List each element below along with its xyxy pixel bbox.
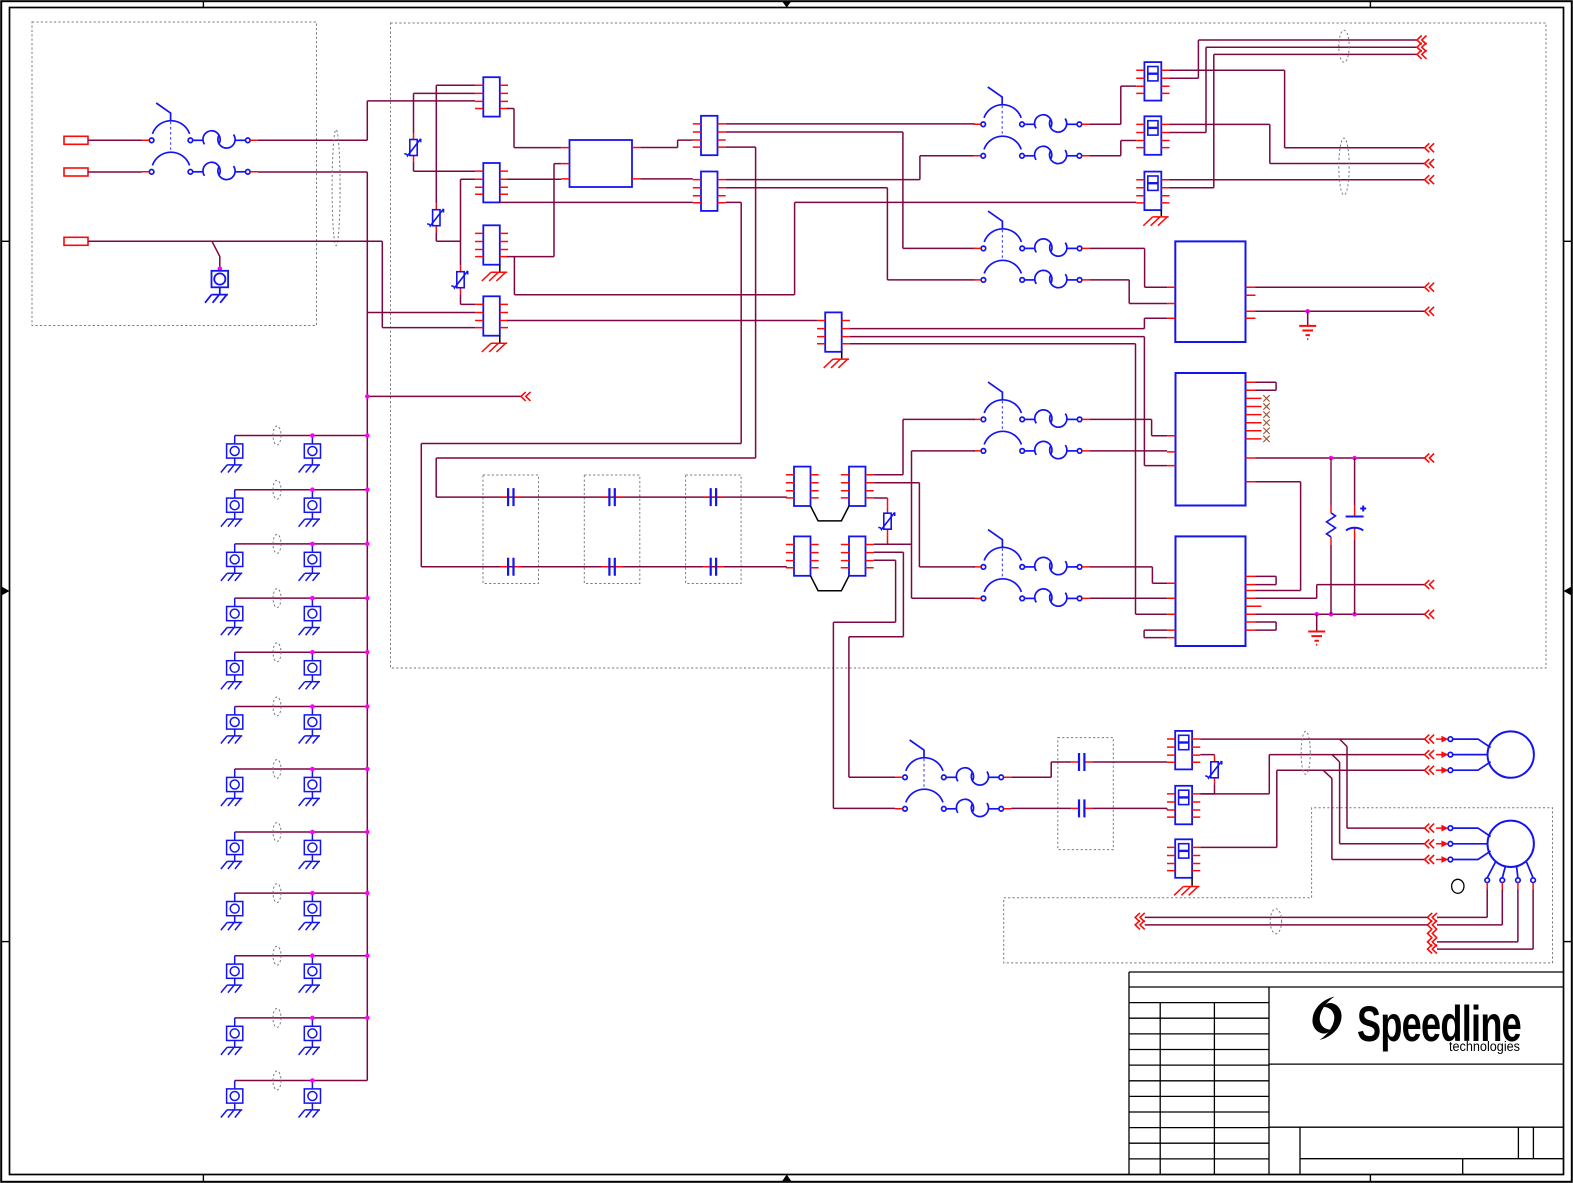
arrow motor1 terminal [1436,751,1449,758]
cap row 1 wire [436,496,787,498]
fuse F1 [1136,62,1169,101]
border tick left a [2,240,10,242]
wire pair lower pin1 to tie [874,543,912,545]
junction dots 24V rail [1329,456,1334,461]
wire Q4 pole1 out to PSU2 pin1 [1090,419,1168,435]
wire Q3 pole2 out to PSU1 pin2 [1090,280,1168,304]
shield ground row 10 right symbol [299,956,321,993]
bracket PSU3 left pins 4-5 [1144,630,1167,638]
border tick left b [2,941,10,943]
fuse F3 [1136,172,1169,211]
ground stub F6 [1191,878,1193,886]
capacitor module 1 top [500,488,521,506]
red earth PSU1 [1299,326,1316,339]
shield ground row 6 wire [235,706,368,708]
junction dot row 4 a [310,596,315,601]
breaker Q3 [973,211,1089,288]
dashed box: motor cable enclosure (L-shape) [1004,808,1553,963]
connector X3 (C2) [475,163,508,202]
buffer resistor R1 [1330,458,1332,505]
wire Q3 pole1 out to PSU1 pin1 [1090,248,1168,287]
shield ground row 1 left symbol [221,436,243,473]
shield ground row 2 cable ellipse [273,480,281,499]
bracket PSU3 right pins 1-2 [1256,576,1277,584]
junction dot row 1 b [365,433,370,438]
wire C2 bottom row to module box B [500,201,693,203]
chevron stack encoder left [1135,913,1145,922]
arrow motor2 terminal [1436,840,1449,847]
junction dot row 8 b [365,830,370,835]
wire Q2 pole2 out to F2 pin3 [1089,141,1136,156]
chevron 0V [1425,610,1435,619]
wire encoder lead 4 [1437,890,1533,950]
shield ground row 8 cable ellipse [273,823,281,842]
border tick top a [202,2,204,8]
shield ground row 9 cable ellipse [273,884,281,903]
junction dot row 6 b [365,704,370,709]
ground stub C3 [499,265,501,272]
arrow motor1 terminal [1436,767,1449,774]
connector X5 (C4) [475,296,508,335]
junction dot row 10 b [365,953,370,958]
terminal X1:2 [64,168,88,176]
chevron connector spare [521,392,531,401]
fuse F4 [1167,731,1200,770]
shield ground row 2 wire [235,489,368,491]
wire C2 pin2 out to filter in3 [507,178,561,180]
wire F3 pin2 up to top chevron 3 [1170,54,1418,187]
dashed box: bottom cap module [1058,738,1114,850]
pair lower right connector [841,536,874,575]
PE ground assembly (machine bed) [205,271,228,303]
wire T2 to breaker Q1 [88,171,142,173]
border tick top b [1369,2,1371,8]
junction dot row 11 b [365,1016,370,1021]
cable shield ellipse right mid [1339,138,1349,195]
capacitor module 3 top [703,488,724,506]
shield ground row 1 cable ellipse [273,426,281,445]
wire F2 pin1 to right chevron row2 [1170,124,1425,163]
arrow motor2 terminal [1436,856,1449,863]
centering mark right [1564,587,1572,596]
wire F4 pin3 to varistor [1200,754,1214,757]
wire varistor to F5 pin1 row [1200,784,1214,794]
centering mark bottom [782,1175,791,1182]
connector X4 (C3) [475,225,508,264]
chevron motor2 W [1425,855,1435,864]
shield ground row 10 left symbol [221,956,243,993]
wire PE to C4 pin4 [382,241,475,327]
shield ground row 9 left symbol [221,893,243,930]
wire A pin4 down to cap feed [436,147,755,497]
wire PSU1 out3 to chevron [1256,310,1425,312]
wire varistor F12 to C4 pin1 [461,294,476,304]
wire F1 pin1 to right chevron row1 [1170,70,1425,148]
connector X2 (C1) [475,77,508,116]
bracket PSU3 right pins 7-8 [1256,622,1277,630]
wire A pin1 to breaker Q2 pole1 [726,123,975,125]
fuse F6 [1167,839,1200,878]
pair upper shield link [811,506,850,521]
wire Q4 pole2 out to PSU2 pin2 [1090,450,1168,452]
cable shield ellipse top right [1339,30,1349,62]
EMC filter unit Z1 [570,140,633,187]
pair upper right connector [841,467,874,506]
wire PSU3 pin3 out to chevron via corner [1256,585,1425,599]
shield ground row 12 wire [235,1080,368,1082]
shield ground row 9 wire [235,892,368,894]
junction dot PSU1 earth [1305,309,1310,314]
junction dot row 2 b [365,487,370,492]
cable shield ellipse encoder [1270,909,1281,934]
arrow motor2 terminal [1436,825,1449,832]
shield ground row 8 left symbol [221,832,243,869]
shield ground row 11 left symbol [221,1018,243,1055]
junction dot row 10 a [310,953,315,958]
junction dot row 8 a [310,830,315,835]
arrow motor1 terminal [1436,736,1449,743]
power supply unit PSU2 [1176,373,1246,506]
wire Q5 pole2 out to PSU3 pin2 [1090,597,1168,599]
dashed box: incoming mains enclosure [32,22,317,326]
shield ground row 3 wire [235,543,368,545]
dashed box: filter cap module 3 [686,475,742,584]
varistor F10 [404,133,420,162]
border tick right [1564,941,1573,943]
junction dot row 5 b [365,650,370,655]
connector X7 (module B) [693,172,726,211]
wire F1 pin2 up to top chevron 1 [1170,40,1418,78]
shield ground row 6 cable ellipse [273,697,281,716]
shield ground row 4 right symbol [299,598,321,635]
wire phase W to motors [1200,770,1424,859]
motor M2 [1448,821,1535,883]
wire Q6 pole1 in [849,776,895,778]
svg-text:technologies: technologies [1449,1039,1520,1054]
shield ground row 11 right symbol [299,1018,321,1055]
terminal X1:3 PE [64,237,88,245]
varistor F14 [1205,755,1221,784]
chevron right row3 [1425,175,1435,184]
cable shield ellipse E1 [332,130,340,246]
wire C7 pin4 to PSU3 pin3 [850,344,1167,615]
nc cross marks PSU2 [1263,395,1269,442]
chevron 24V [1425,454,1435,463]
bottom capacitor 2 [1071,799,1092,817]
shield ground row 7 left symbol [221,769,243,806]
wire Q6 pole2 out to cap [1011,807,1071,809]
earth drop PSU1 [1307,311,1309,326]
wire filter out2 to module B pin1 [640,178,693,180]
junction dot row 6 a [310,704,315,709]
shield ground row 5 cable ellipse [273,643,281,662]
shield ground row 2 right symbol [299,490,321,527]
wire phase V to motors [1200,755,1424,844]
junction dot row 12 a [310,1078,315,1083]
fuse F2 [1136,116,1169,155]
junction dot PE drop [218,267,223,272]
wire shield bus spare to chevron [367,395,521,397]
shield ground row 5 left symbol [221,652,243,689]
junction dot row 9 b [365,891,370,896]
wire encoder lead 1 [1437,890,1487,918]
pair lower shield link [811,576,850,591]
chevron PSU1 out3 [1425,307,1435,316]
wire C1 pin2 to varistor F10 top [414,93,476,133]
shield ground row 4 left symbol [221,598,243,635]
capacitor module 2 top [602,488,623,506]
wire B pin2 down to breaker Q3 pole2 [726,188,975,280]
label ellipse [1452,879,1464,893]
centering mark left [2,587,10,596]
power supply unit PSU3 [1176,536,1246,646]
wire varistor F10 bottom to C2 pin1 [414,162,476,171]
motor2 encoder pin stubs [1487,883,1533,890]
wire varistor F11 to F12 link [436,232,460,265]
chevron motor2 V [1425,839,1435,848]
title block frame [1129,972,1564,1175]
chevron top 1 [1417,36,1427,45]
wire Q6 pole2 in [833,807,895,809]
terminal X1:1 [64,136,88,144]
shield ground row 8 right symbol [299,832,321,869]
wire Q2 pole1 out to F1 pin3 [1089,86,1136,124]
wire A pin2 down to breaker Q3 pole1 [726,132,975,248]
wire encoder lead 2 [1437,890,1502,925]
pair lower left connector [786,536,819,575]
breaker Q6 [895,740,1011,817]
shield ground row 1 right symbol [299,436,321,473]
varistor F12 [451,265,467,294]
pair upper left connector [786,467,819,506]
shield ground row 5 wire [235,651,368,653]
wire filter in2 leg [554,164,561,257]
shield ground row 12 right symbol [299,1081,321,1118]
shield ground row 10 wire [235,955,368,957]
shield ground row 4 cable ellipse [273,589,281,608]
breaker Q4 [973,382,1089,459]
breaker Q2 [973,87,1089,164]
ground stub C4 [499,336,501,343]
chevron motor1 V [1425,750,1435,759]
wire Q6 pole1 out to cap [1011,762,1071,777]
shield ground row 7 cable ellipse [273,760,281,779]
shield ground row 9 right symbol [299,893,321,930]
chevron PSU1 out1 [1425,283,1435,292]
wire Q1 pole1 out, up to C1 pin3 [258,101,475,140]
long encoder pair wires [1145,917,1428,925]
junction dot row 3 a [310,542,315,547]
junction dot row 9 a [310,891,315,896]
red ground F3 [1143,217,1168,226]
chevron stack encoder right [1428,913,1438,922]
capacitor module 2 bottom [602,558,623,576]
shield ground row 4 wire [235,597,368,599]
wire B pin4 down to cap feed 2 [421,202,741,566]
shield ground row 11 wire [235,1017,368,1019]
red ground C3 [482,272,507,281]
junction dot row 1 a [310,433,315,438]
wire pair lower pin2 down to Q6 pole1 [849,552,904,777]
dashed box: filter cap module 2 [584,475,640,584]
bracket PSU2 right pins 1-2 [1256,382,1277,390]
cable shield ellipse motor1 [1301,731,1310,774]
junction dot row 7 b [365,767,370,772]
breaker Q5 [973,530,1089,607]
wire C7 pin2 to PSU1 pin3 [850,318,1167,328]
shield ground row 3 right symbol [299,544,321,581]
shield ground row 10 cable ellipse [273,946,281,965]
wire pair upper pin2 to Q5 pole1 [874,483,975,567]
border tick right a [1564,240,1573,242]
wire filter out1 to module A pin3 [640,140,693,147]
wire T3 PE run [88,241,382,268]
earth drop 0V [1316,614,1318,631]
shield ground row 7 wire [235,768,368,770]
border tick bottom [202,1175,204,1183]
wire cap2 to F5 pin3 [1092,808,1167,809]
connector X8 (C7) [817,312,850,351]
shield ground row 5 right symbol [299,652,321,689]
wire C1 pin1 left leg [436,85,475,203]
wire pair upper pin1 to Q4 pole1 [874,419,975,474]
chevron top 2 [1417,43,1427,52]
junction dot row 7 a [310,767,315,772]
wire PSU3 0V rail [1256,613,1425,615]
ground stub F3 [1160,210,1162,216]
wire C7 pin3 to PSU2 pin3 [850,337,1167,466]
red ground F6 [1174,887,1199,896]
wire C4 pin3 to C7 pin1 [507,320,817,322]
ground stub C7 [841,352,843,359]
wire encoder lead 3 [1437,890,1518,942]
shield ground row 2 left symbol [221,490,243,527]
power supply unit PSU1 [1175,241,1245,342]
wire C3 pin4 long route to F3 pin4 [507,202,1136,294]
cap row 2 wire [421,566,787,568]
junction dot row 5 a [310,650,315,655]
chevron right row2 [1425,159,1435,168]
shield ground row 1 wire [235,435,368,437]
wire C4 pin2 to shield bus [367,312,475,314]
bottom capacitor 1 [1071,753,1092,771]
fuse F5 [1167,786,1200,825]
shield ground row 6 right symbol [299,707,321,744]
capacitor module 1 bottom [500,558,521,576]
junction dots 0V rail [1314,612,1319,617]
wire cap1 to F4 pin4 [1092,761,1167,763]
wire phase U to motors [1200,739,1424,828]
wire PSU2 24V out [1256,457,1425,459]
chevron top 3 [1417,50,1427,59]
centering mark top [782,2,791,8]
junction dot bus-chevron [365,394,370,399]
wire C2 pin2 from chain [461,179,476,241]
dashed box: main cabinet enclosure [391,23,1547,668]
shield ground row 11 cable ellipse [273,1008,281,1027]
shield ground row 7 right symbol [299,769,321,806]
border tick bottom b [1369,1175,1371,1183]
wire PSU1 out1 to chevron [1256,286,1425,288]
chevron motor2 U [1425,824,1435,833]
shield ground row 8 wire [235,831,368,833]
shield ground row 12 left symbol [221,1081,243,1118]
junction dot row 4 b [365,596,370,601]
chevron right row1 [1425,143,1435,152]
shield ground row 6 left symbol [221,707,243,744]
Speedline logo icon [1312,997,1341,1041]
varistor F11 [427,203,443,232]
red earth 0V [1308,632,1325,645]
buffer capacitor C10 [1354,458,1356,505]
wire F2 pin2 up to top chevron 2 [1170,47,1418,132]
junction dot row 11 a [310,1016,315,1021]
capacitor module 3 bottom [703,558,724,576]
wire F3 pin1 to right chevron row3 [1170,179,1425,181]
chevron motor1 U [1425,735,1435,744]
wire B pin1 to breaker Q2 pole2 [726,156,975,180]
chevron PSU3 signal [1425,580,1435,589]
shield ground row 3 left symbol [221,544,243,581]
chevron motor1 W [1425,766,1435,775]
red ground C7 [824,359,849,368]
wire T1 to breaker Q1 [88,139,142,141]
breaker Q1 with line filter [142,103,258,180]
red ground C4 [482,343,507,352]
wire Q1 pole2 out to shield-bus corner [258,171,368,173]
shield/PE bus vertical [366,172,368,1081]
varistor pair link F13 [878,507,894,536]
shield ground row 3 cable ellipse [273,534,281,553]
wire C1 pin4 to filter unit in1 [507,109,561,148]
shield ground row 12 cable ellipse [273,1071,281,1090]
connector X6 (module A) [693,116,726,155]
junction dot row 3 b [365,542,370,547]
wire Q5 pole1 out to PSU3 pin1 [1090,567,1168,583]
dashed box: filter cap module 1 [483,475,539,584]
wire PSU2 out2 to PSU3 sense [1256,482,1301,591]
wire pair lower pin3 down to Q6 pole2 [833,560,895,808]
motor M1 [1448,731,1534,777]
wire tie Q4 pole2 / Q5 pole2 [912,451,975,598]
junction dot row 2 a [310,487,315,492]
